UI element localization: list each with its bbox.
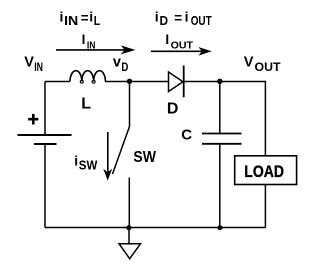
svg-text:=: = [174,11,182,26]
svg-text:D: D [160,13,169,28]
svg-text:C: C [181,127,192,144]
svg-text:LOAD: LOAD [244,162,284,181]
svg-text:SW: SW [79,159,98,173]
svg-text:v: v [113,54,121,70]
svg-text:V: V [244,55,254,71]
svg-text:OUT: OUT [171,40,194,52]
svg-text:i: i [60,8,64,24]
svg-text:i: i [185,8,189,24]
svg-text:i: i [155,8,159,24]
svg-text:SW: SW [133,149,156,166]
svg-text:OUT: OUT [191,13,212,28]
svg-text:I: I [165,32,169,47]
svg-text:I: I [82,32,86,47]
svg-text:D: D [121,60,128,74]
svg-text:i: i [89,8,93,24]
svg-text:=: = [81,11,89,26]
svg-text:IN: IN [87,39,96,51]
svg-text:IN: IN [34,60,43,74]
svg-text:D: D [167,100,179,117]
svg-text:L: L [94,13,100,28]
svg-text:i: i [74,153,78,169]
svg-text:IN: IN [64,13,78,28]
svg-text:L: L [81,95,91,112]
svg-text:OUT: OUT [255,60,282,74]
svg-text:V: V [24,55,34,71]
